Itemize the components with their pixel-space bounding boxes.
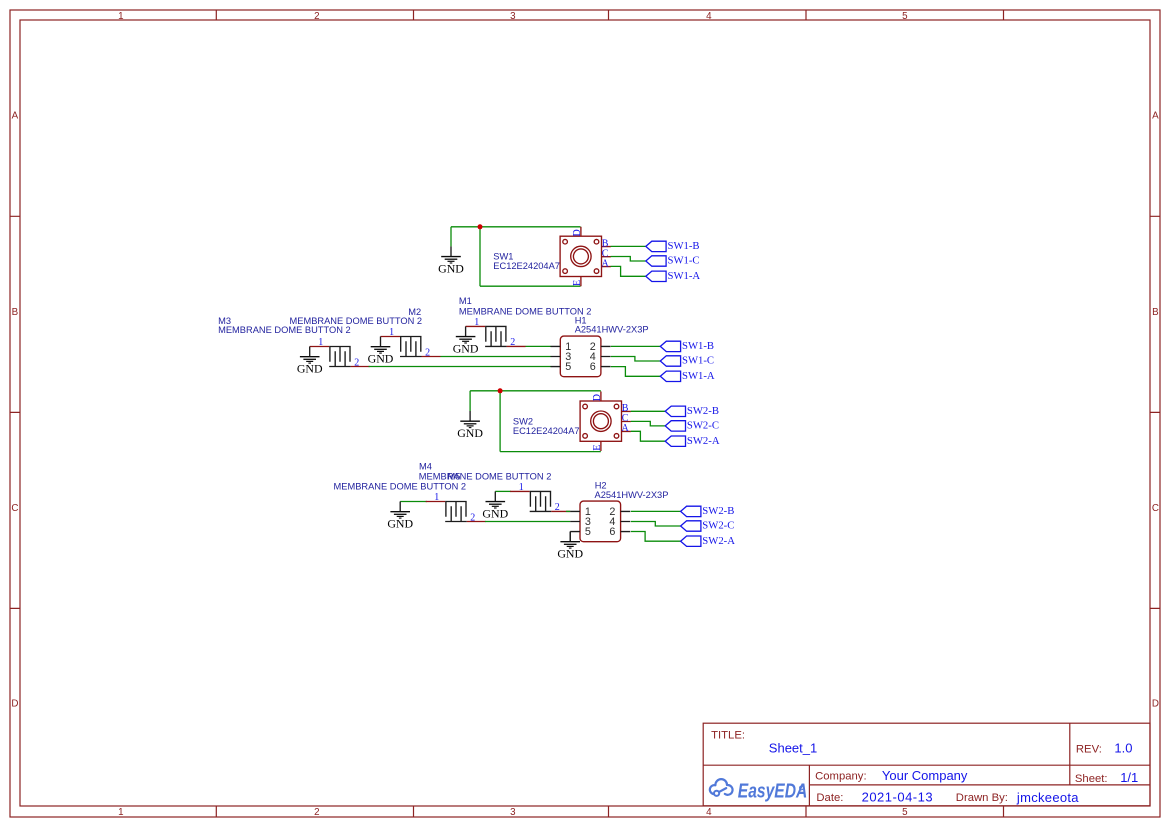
ground GND (SW2): [457, 411, 483, 440]
net flag SW2-B: [665, 405, 719, 417]
wire H1 pin2: [611, 345, 660, 347]
svg-text:5: 5: [902, 807, 908, 818]
svg-text:jmckeeota: jmckeeota: [1016, 790, 1079, 805]
svg-text:1: 1: [118, 11, 123, 22]
wire SW1 top rail: [451, 226, 581, 228]
svg-text:Date:: Date:: [816, 792, 843, 804]
wire H1 pin6: [611, 367, 660, 377]
wire SW2 pin C: [631, 421, 665, 426]
svg-text:SW2-C: SW2-C: [702, 520, 734, 532]
svg-text:B: B: [12, 307, 19, 318]
wire SW2 left vertical: [499, 391, 501, 452]
svg-text:H2: H2: [595, 481, 607, 491]
wire SW1 left vertical: [479, 227, 481, 286]
svg-text:TITLE:: TITLE:: [711, 730, 745, 742]
wire GND stem to SW1 net: [450, 227, 452, 247]
svg-text:MEMBRANE DOME BUTTON 2: MEMBRANE DOME BUTTON 2: [334, 482, 467, 492]
wire H2 pin5 to GND: [569, 532, 571, 542]
ground GND: [438, 246, 464, 275]
wire SW2 pin A: [631, 431, 665, 441]
svg-text:SW2: SW2: [513, 417, 533, 427]
wire M1 pin2 to H1 pin1: [526, 345, 551, 347]
svg-text:SW2-A: SW2-A: [687, 435, 720, 447]
svg-text:Company:: Company:: [815, 771, 867, 783]
svg-text:A2541HWV-2X3P: A2541HWV-2X3P: [575, 325, 649, 335]
ground GND (M2): [368, 337, 394, 366]
svg-text:SW1-A: SW1-A: [668, 270, 701, 282]
svg-text:SW2-C: SW2-C: [687, 420, 719, 432]
svg-text:EC12E24204A7: EC12E24204A7: [513, 426, 580, 436]
connector H2: [570, 501, 630, 542]
svg-text:2: 2: [314, 11, 319, 22]
wire SW2 top rail: [470, 390, 601, 392]
ground GND (H2): [557, 532, 583, 561]
svg-text:2: 2: [314, 807, 319, 818]
button M2: [381, 327, 441, 358]
svg-text:M1: M1: [459, 296, 472, 306]
wire SW1 pin C: [611, 257, 646, 262]
svg-text:SW1-B: SW1-B: [682, 340, 714, 352]
net flag SW1-A (H1): [660, 370, 715, 382]
net flag SW2-B (H2): [681, 505, 735, 517]
svg-text:B: B: [1152, 307, 1159, 318]
net flag SW1-C: [646, 255, 700, 267]
svg-text:Sheet_1: Sheet_1: [769, 740, 817, 755]
svg-text:SW2-B: SW2-B: [702, 505, 734, 517]
net flag SW1-B (H1): [660, 340, 714, 352]
svg-text:C: C: [11, 503, 18, 514]
svg-text:1.0: 1.0: [1114, 741, 1132, 756]
net flag SW2-A (H2): [681, 535, 736, 547]
button M1: [466, 317, 526, 348]
wire M5 pin2 to H2 pin1: [566, 510, 570, 512]
button M4: [426, 492, 486, 523]
wire H2 pin2: [631, 510, 681, 512]
svg-text:SW1-C: SW1-C: [682, 355, 714, 367]
svg-text:3: 3: [510, 807, 516, 818]
svg-text:EC12E24204A7: EC12E24204A7: [493, 261, 560, 271]
wire GND stem to SW2 net: [469, 391, 471, 411]
svg-text:A: A: [1152, 111, 1159, 122]
svg-text:M5: M5: [448, 472, 461, 482]
junction: [498, 388, 503, 393]
net flag SW2-C (H2): [681, 520, 735, 532]
svg-text:Your Company: Your Company: [882, 768, 968, 783]
net flag SW1-C (H1): [660, 355, 714, 367]
ground GND (M4): [387, 502, 413, 531]
svg-text:C: C: [1152, 503, 1159, 514]
connector H1: [551, 336, 611, 377]
svg-text:4: 4: [706, 807, 712, 818]
svg-text:1: 1: [118, 807, 123, 818]
svg-text:D: D: [1152, 699, 1159, 710]
ground GND (M1): [453, 326, 479, 355]
wire SW2 pin B: [631, 410, 665, 412]
svg-text:D: D: [11, 699, 18, 710]
switch SW2 encoder EC12E24204A7: [580, 392, 631, 452]
button M3: [310, 337, 370, 368]
net flag SW1-B: [646, 240, 700, 252]
junction: [478, 224, 483, 229]
ground GND (M5): [482, 491, 508, 520]
ground GND (M3): [297, 347, 323, 376]
net flag SW2-A: [665, 435, 720, 447]
svg-text:M4: M4: [419, 462, 432, 472]
wire H1 pin4: [611, 357, 660, 362]
wire SW1 pin B: [611, 245, 646, 247]
wire M3 pin2 to H1 pin5: [369, 366, 551, 368]
EasyEDA logo: [710, 779, 733, 796]
svg-text:REV:: REV:: [1076, 744, 1102, 756]
svg-text:2021-04-13: 2021-04-13: [862, 790, 934, 805]
svg-text:SW1: SW1: [493, 251, 513, 261]
wire H2 pin4: [631, 522, 681, 527]
wire M4 pin2 to H2 pin3: [485, 521, 570, 523]
svg-text:MEMBRANE DOME BUTTON 2: MEMBRANE DOME BUTTON 2: [419, 472, 552, 482]
svg-text:EasyEDA: EasyEDA: [738, 781, 808, 803]
svg-text:SW1-B: SW1-B: [668, 240, 700, 252]
wire SW2 bottom rail: [500, 451, 601, 453]
svg-text:MEMBRANE DOME BUTTON 2: MEMBRANE DOME BUTTON 2: [459, 306, 592, 316]
svg-text:Sheet:: Sheet:: [1075, 773, 1108, 785]
svg-text:5: 5: [902, 11, 908, 22]
net flag SW1-A: [646, 270, 701, 282]
wire H2 pin6: [631, 532, 681, 542]
wire M2 pin2 to H1 pin3: [441, 356, 551, 358]
svg-text:MEMBRANE DOME BUTTON 2: MEMBRANE DOME BUTTON 2: [218, 325, 351, 335]
svg-text:A2541HWV-2X3P: A2541HWV-2X3P: [595, 490, 669, 500]
svg-text:SW1-C: SW1-C: [668, 255, 700, 267]
title block: [703, 723, 1150, 806]
svg-text:4: 4: [706, 11, 712, 22]
net flag SW2-C: [665, 420, 719, 432]
switch SW1 encoder EC12E24204A7: [560, 227, 611, 287]
svg-text:SW2-B: SW2-B: [687, 405, 719, 417]
svg-text:1/1: 1/1: [1120, 770, 1138, 785]
svg-text:Drawn By:: Drawn By:: [956, 792, 1008, 804]
svg-text:SW2-A: SW2-A: [702, 535, 735, 547]
wire M4 GND link: [400, 501, 427, 503]
button M5: [510, 482, 570, 513]
svg-text:SW1-A: SW1-A: [682, 370, 715, 382]
wire SW1 pin A: [611, 266, 646, 276]
svg-text:A: A: [12, 111, 19, 122]
wire M5 GND link: [495, 490, 511, 492]
svg-text:3: 3: [510, 11, 516, 22]
wire SW1 bottom rail: [480, 285, 581, 287]
